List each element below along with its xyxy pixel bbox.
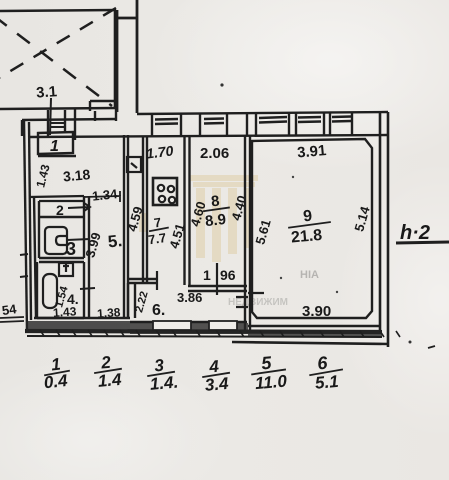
- svg-text:3.18: 3.18: [62, 166, 91, 184]
- explication fractions: [41, 351, 345, 395]
- stove: [153, 178, 177, 205]
- label 7 over 7.7: [145, 214, 171, 248]
- room9 window sill 1: [259, 117, 287, 123]
- inner line: [29, 122, 31, 320]
- speck bottom right: [428, 346, 435, 348]
- watermark portico logo: [139, 175, 258, 262]
- label 8 over 8.9: [201, 192, 232, 231]
- closet 1: [38, 132, 76, 156]
- exp fraction 4/3.4: [201, 356, 232, 395]
- svg-text:3.1: 3.1: [36, 83, 58, 101]
- svg-text:5: 5: [260, 353, 273, 374]
- svg-text:54: 54: [1, 301, 18, 318]
- svg-text:5.14: 5.14: [351, 204, 373, 233]
- svg-text:3.99: 3.99: [82, 231, 103, 259]
- pier vertical x256: [255, 113, 257, 136]
- hatched box bottom edge: [0, 108, 116, 109]
- svg-text:1.4.: 1.4.: [149, 372, 179, 393]
- svg-text:6: 6: [316, 353, 329, 374]
- hatch diagonal A: [0, 16, 112, 106]
- room9 window sill 3: [332, 117, 351, 122]
- speck near party wall: [220, 83, 223, 86]
- pier vertical x324: [323, 112, 325, 136]
- svg-text:3: 3: [154, 356, 166, 376]
- outer top line left part: [22, 119, 116, 120]
- room 3: [39, 218, 84, 262]
- svg-text:1: 1: [50, 138, 59, 155]
- wall left line: [116, 10, 119, 112]
- inner top line: [29, 135, 387, 137]
- lower thin line: [232, 342, 389, 344]
- svg-text:4: 4: [208, 357, 221, 377]
- svg-text:8: 8: [210, 193, 220, 211]
- room 4: [37, 262, 84, 318]
- pier vertical x330: [329, 112, 331, 136]
- svg-text:1.34: 1.34: [91, 186, 118, 204]
- svg-text:1: 1: [203, 267, 211, 283]
- wall top connector: [117, 17, 137, 20]
- pier vertical x152: [151, 114, 153, 136]
- door symbol square: [127, 157, 141, 172]
- svg-text:НІА: НІА: [300, 269, 319, 281]
- svg-text:5.61: 5.61: [252, 218, 273, 246]
- cistern box: [59, 263, 73, 276]
- speck room 9 mid: [280, 277, 282, 279]
- label 9 over 21.8: [287, 206, 333, 247]
- kitchen 7 left wall: [143, 137, 147, 283]
- dim line 1.34: [84, 191, 121, 202]
- svg-text:0.4: 0.4: [43, 371, 69, 392]
- bathtub: [45, 227, 67, 254]
- band vertical x75: [74, 109, 76, 140]
- room9 window sill 2: [298, 117, 321, 122]
- svg-text:3.91: 3.91: [296, 142, 327, 161]
- speck room 9 bottom: [336, 291, 338, 293]
- right outer wall: [380, 112, 388, 347]
- kitchen window sill: [155, 119, 178, 124]
- exp fraction 6/5.1: [307, 351, 344, 393]
- small box at party wall corner: [90, 101, 116, 121]
- svg-text:11.0: 11.0: [254, 371, 288, 393]
- hallway 6 left wall: [128, 283, 135, 318]
- wall thickness ticks left: [20, 254, 28, 277]
- inner line hallway part: [130, 321, 247, 323]
- rooms left inner line: [34, 196, 36, 318]
- room 4 door opening: [80, 288, 95, 289]
- wall kitchen/room8: [185, 137, 190, 285]
- svg-text:3.90: 3.90: [302, 303, 331, 320]
- svg-text:3.86: 3.86: [177, 290, 202, 305]
- speck dot bottom right: [409, 341, 412, 344]
- radiator ticks room9: [236, 293, 264, 307]
- watermark faint text: [228, 269, 319, 308]
- pier vertical x247: [246, 113, 248, 136]
- pier vertical x200: [199, 113, 201, 136]
- hatched adjacent block top-left: [0, 8, 116, 109]
- svg-text:3: 3: [66, 239, 76, 259]
- room 2 door arrow: [68, 203, 90, 211]
- svg-text:1.43: 1.43: [33, 163, 52, 189]
- room 9 inner outline: [252, 139, 372, 318]
- corridor 5 right wall of rooms: [88, 196, 90, 318]
- hatched box top edge: [0, 10, 116, 11]
- band vertical x65: [64, 110, 66, 131]
- left wall top corner vertical: [21, 120, 23, 136]
- svg-text:1.4: 1.4: [97, 370, 123, 391]
- exp fraction 2/1.4: [92, 352, 123, 391]
- door recess white 2: [209, 321, 237, 330]
- pier vertical x352: [351, 112, 353, 136]
- room 8 bottom wall: [188, 286, 247, 291]
- svg-text:7: 7: [153, 215, 162, 231]
- room 3 door tick: [67, 239, 90, 240]
- party wall to staircase: [117, 0, 137, 113]
- kitchen bottom wall: [129, 279, 158, 283]
- svg-text:7.7: 7.7: [147, 230, 167, 247]
- bottom wall hatch ticks: [40, 330, 400, 337]
- kitchen door tick: [156, 271, 158, 290]
- inner line left part: [34, 317, 130, 319]
- exp fraction 3/1.4: [146, 355, 179, 395]
- pier vertical x296: [295, 113, 297, 136]
- svg-text:5.1: 5.1: [314, 372, 339, 393]
- svg-text:9: 9: [303, 208, 313, 226]
- svg-text:1.70: 1.70: [145, 142, 174, 161]
- wall room8/room9: [245, 135, 250, 330]
- label 54 underline: [0, 317, 24, 322]
- pier vertical x181: [180, 114, 182, 136]
- svg-text:8.9: 8.9: [204, 211, 227, 230]
- dim tick 1|96: [216, 263, 218, 295]
- left outer wall: [24, 120, 36, 332]
- bottom wall dark band mid: [130, 323, 248, 334]
- svg-text:2.06: 2.06: [200, 145, 229, 162]
- exp fraction 1/0.4: [41, 354, 72, 393]
- toilet bowl: [43, 274, 57, 308]
- outer line: [24, 120, 27, 332]
- svg-text:2: 2: [56, 202, 64, 218]
- room 2: [39, 196, 84, 218]
- speck room 9 top: [292, 176, 294, 178]
- band vertical x48: [47, 110, 49, 136]
- room9 bottom second line: [248, 325, 380, 327]
- svg-text:21.8: 21.8: [290, 227, 323, 247]
- svg-text:6.: 6.: [152, 302, 165, 319]
- svg-text:2: 2: [99, 353, 112, 373]
- svg-text:h·2: h·2: [400, 222, 430, 244]
- hall bottom wall (top of room 2): [29, 196, 84, 201]
- svg-text:96: 96: [220, 267, 236, 283]
- wall right line: [136, 0, 139, 113]
- pier vertical x289: [288, 113, 290, 136]
- hatched box right edge: [114, 10, 117, 107]
- exp fraction 5/11.0: [249, 351, 288, 393]
- svg-text:3.4: 3.4: [204, 374, 230, 395]
- window sill left: [50, 123, 64, 127]
- svg-text:5.: 5.: [107, 231, 123, 251]
- outer top line right part: [137, 112, 388, 114]
- room8 window sill: [204, 119, 224, 124]
- door recess white 1: [153, 321, 191, 330]
- outer double line: [25, 331, 382, 332]
- corridor right wall: [124, 135, 128, 318]
- top outer wall band: [22, 101, 388, 140]
- bottom wall dark band left: [26, 321, 130, 333]
- hatch diagonal B: [0, 8, 116, 82]
- h underline: [396, 242, 449, 243]
- bottom wall band: [25, 318, 389, 344]
- bottom wall dark band right: [248, 330, 382, 336]
- leader line for 3.1: [50, 98, 51, 135]
- pier vertical x227: [226, 113, 228, 136]
